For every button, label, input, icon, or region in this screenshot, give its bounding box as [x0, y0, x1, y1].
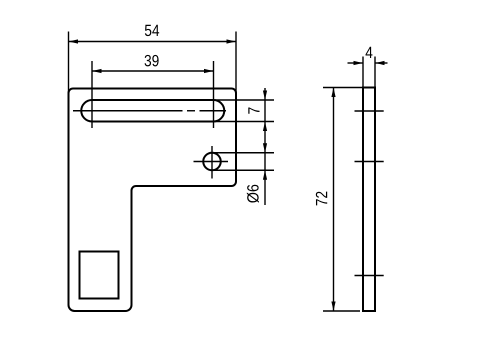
- side view hole centerline mark: [355, 161, 384, 163]
- dimension 54 extension lines: [69, 32, 237, 98]
- front view outline: [69, 89, 237, 312]
- slot centerline dash-dot: [73, 110, 226, 112]
- side view cutout centerline mark: [355, 275, 384, 277]
- dimension 72 arrowheads: [331, 88, 335, 312]
- dimension O6 extension lines (hole tangents): [212, 153, 274, 171]
- shared vertical dimension line for 7 and O6: [264, 88, 266, 205]
- side view slot centerline mark: [355, 110, 384, 112]
- dimension 7 arrowheads: [263, 91, 267, 132]
- dimension 4 arrowheads: [354, 61, 385, 65]
- label 7: [248, 107, 259, 113]
- dimension 39 extension lines: [92, 61, 214, 128]
- label O6: [247, 185, 259, 203]
- slot (obround): [81, 100, 224, 122]
- label 39: [145, 55, 159, 67]
- dimension 54 arrowheads: [69, 39, 237, 43]
- dimension 39 line: [92, 70, 214, 72]
- dimension 4 leader lines: [348, 62, 388, 64]
- hole crosshair centerlines: [194, 146, 229, 179]
- dimension O6 arrowheads: [263, 143, 267, 180]
- side view rectangle: [363, 88, 375, 312]
- label 4: [366, 47, 373, 58]
- dimension 4 extension lines: [363, 57, 375, 88]
- label 72: [316, 192, 327, 206]
- rectangular cutout: [80, 252, 119, 299]
- hole O6: [203, 153, 221, 171]
- dimension 72 extension lines: [323, 88, 362, 312]
- dimension 39 arrowheads: [92, 69, 214, 73]
- dimension 54 line: [69, 41, 237, 43]
- dimension 7 extension lines (slot tangents): [214, 100, 274, 122]
- dimension 72 line: [333, 88, 335, 312]
- label 54: [145, 25, 159, 36]
